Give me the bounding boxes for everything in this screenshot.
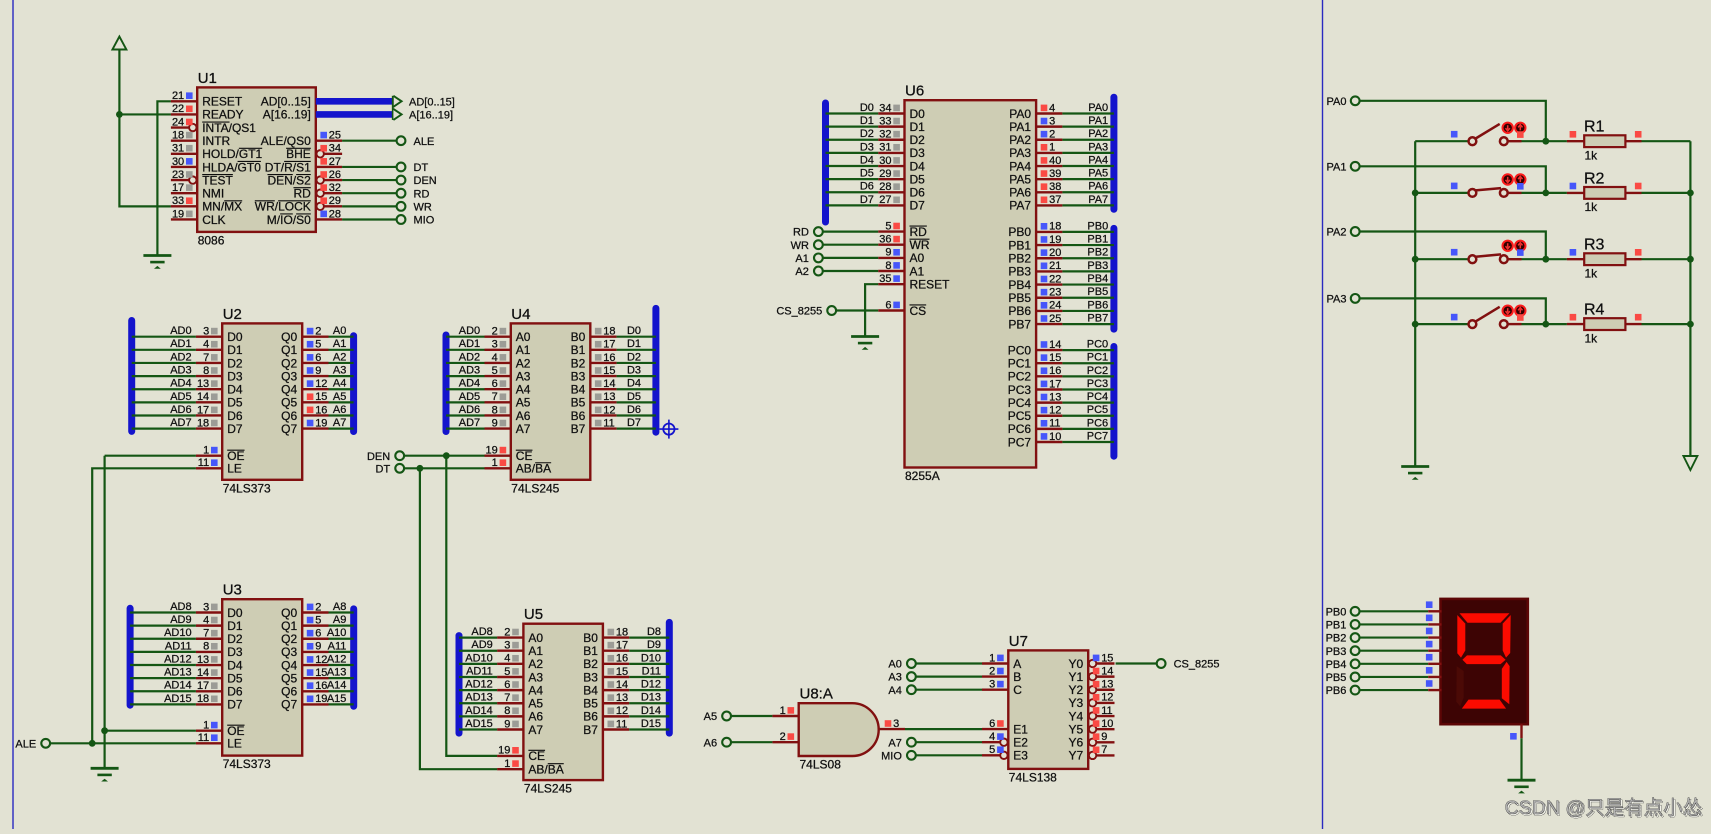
U2 pin 17 D6 <box>170 404 243 423</box>
svg-text:25: 25 <box>1049 313 1061 325</box>
svg-text:PB1: PB1 <box>1087 233 1108 245</box>
svg-text:A0: A0 <box>910 251 925 265</box>
wire AD bus to U3 <box>130 611 196 613</box>
wire AD bus to U3 <box>130 625 196 627</box>
svg-text:D4: D4 <box>627 378 641 390</box>
svg-text:RD: RD <box>910 225 928 239</box>
wire AD bus to U4 <box>446 388 485 390</box>
U4 pin 4 A2 <box>459 351 531 370</box>
svg-text:AD6: AD6 <box>170 404 191 416</box>
svg-text:CS_8255: CS_8255 <box>776 306 822 318</box>
svg-text:A2: A2 <box>333 351 346 363</box>
terminal ALE <box>397 136 435 148</box>
svg-text:30: 30 <box>172 156 184 168</box>
svg-text:5: 5 <box>315 339 321 351</box>
svg-text:D5: D5 <box>227 671 243 685</box>
wire MIO wire <box>916 754 982 756</box>
U6 pin 35 RESET <box>878 273 950 292</box>
svg-text:Q5: Q5 <box>281 396 297 410</box>
U3 body <box>222 599 302 755</box>
svg-text:30: 30 <box>879 155 891 167</box>
svg-text:A0: A0 <box>528 631 543 645</box>
svg-text:10: 10 <box>1101 718 1113 730</box>
terminal MIO (U7.E3) <box>881 750 916 762</box>
wire AD bus to U3 <box>130 664 196 666</box>
wire U6 PC to bus <box>1062 349 1114 351</box>
svg-text:D0: D0 <box>227 330 243 344</box>
wire U8 output to U7.E1 <box>905 728 982 730</box>
svg-text:D7: D7 <box>627 417 641 429</box>
wire U3 to A bus <box>329 651 354 653</box>
svg-text:PA4: PA4 <box>1009 159 1031 173</box>
U2 pin 11 LE <box>196 457 242 476</box>
svg-text:Q1: Q1 <box>281 619 297 633</box>
svg-text:PA7: PA7 <box>1009 199 1031 213</box>
IC U3 74LS373 <box>164 582 346 771</box>
svg-text:A13: A13 <box>327 667 347 679</box>
wire VCC to U1 READY and MN/MX <box>116 49 171 207</box>
wire A0 wire <box>916 662 982 664</box>
wire U3 to A bus <box>329 611 354 613</box>
U7 pin 5 E3 <box>982 744 1028 763</box>
svg-text:PC2: PC2 <box>1008 370 1032 384</box>
U5 pin 5 A3 <box>466 665 543 684</box>
svg-text:PB5: PB5 <box>1326 672 1347 684</box>
wire U3 to A bus <box>329 625 354 627</box>
wire U3 to A bus <box>329 664 354 666</box>
U6 pin 6 CS <box>878 299 926 318</box>
svg-text:11: 11 <box>1049 418 1060 430</box>
terminal WR (U6) <box>791 240 823 252</box>
svg-text:PA1: PA1 <box>1327 161 1347 173</box>
U6 pin 23 PB5 <box>1008 286 1108 305</box>
svg-text:D0: D0 <box>227 606 243 620</box>
U7 body <box>1008 650 1088 769</box>
svg-text:2: 2 <box>492 326 498 338</box>
svg-text:AB/BA: AB/BA <box>528 763 563 777</box>
svg-text:14: 14 <box>1101 665 1113 677</box>
U5 body <box>523 624 603 780</box>
U5 pin 2 A0 <box>471 626 543 645</box>
wire row 1 wire: common to switch <box>1415 140 1468 142</box>
svg-text:19: 19 <box>315 693 327 705</box>
svg-text:A2: A2 <box>516 356 531 370</box>
svg-text:A6: A6 <box>528 710 543 724</box>
wire U6 PB to bus <box>1062 323 1114 325</box>
svg-text:PC6: PC6 <box>1087 417 1108 429</box>
svg-text:22: 22 <box>1049 273 1061 285</box>
U5 pin 9 A7 <box>465 718 543 737</box>
U4 pin 7 A5 <box>459 391 531 410</box>
terminal A3 (U7.B) <box>888 672 915 684</box>
svg-text:74LS373: 74LS373 <box>223 757 271 771</box>
svg-text:15: 15 <box>315 391 327 403</box>
svg-text:Y7: Y7 <box>1069 749 1084 763</box>
wire A5 wire <box>731 715 772 717</box>
svg-text:10: 10 <box>1049 431 1061 443</box>
svg-text:B5: B5 <box>571 396 586 410</box>
wire U4 to D bus <box>617 388 656 390</box>
U5 pin 7 A5 <box>465 692 543 711</box>
svg-text:PB6: PB6 <box>1087 299 1108 311</box>
switch SW4 <box>1451 307 1522 328</box>
wire AD bus to U2 <box>132 336 196 338</box>
svg-text:6: 6 <box>885 299 891 311</box>
wire RD wire <box>823 231 878 233</box>
svg-text:13: 13 <box>197 654 209 666</box>
U5 pin 3 A1 <box>471 639 543 658</box>
svg-text:D0: D0 <box>910 107 926 121</box>
terminal PB1 (display) <box>1326 620 1360 632</box>
U3 pin 5 Q1 <box>281 614 346 633</box>
svg-text:PB2: PB2 <box>1087 247 1108 259</box>
U4 pin 18 B0 <box>571 325 641 344</box>
svg-text:8255A: 8255A <box>905 469 940 483</box>
svg-text:28: 28 <box>879 181 891 193</box>
U1 pin 17 NMI <box>171 182 224 201</box>
resistor R4 <box>1567 302 1642 346</box>
wire U6 PC to bus <box>1062 441 1114 443</box>
svg-text:4: 4 <box>1049 102 1055 114</box>
U3 pin 14 D5 <box>164 667 243 686</box>
svg-text:PC7: PC7 <box>1087 430 1108 442</box>
svg-text:AD8: AD8 <box>471 626 492 638</box>
svg-text:D3: D3 <box>860 141 874 153</box>
svg-text:11: 11 <box>198 732 209 744</box>
terminal PA2 (input) <box>1327 227 1360 239</box>
wire U3 to A bus <box>329 677 354 679</box>
bus PB[0..7] (right of U6) <box>1110 228 1117 329</box>
U1 pin 24 INTA/QS1 <box>171 116 256 135</box>
svg-text:CSDN @只是有点小怂: CSDN @只是有点小怂 <box>1505 797 1702 819</box>
switch SW2 toggle control <box>1503 174 1526 189</box>
svg-text:PA6: PA6 <box>1009 186 1031 200</box>
svg-text:19: 19 <box>486 445 498 457</box>
wire A3 wire <box>916 675 982 677</box>
U6 pin 4 PA0 <box>1009 102 1108 121</box>
U6 pin 12 PC5 <box>1008 404 1108 423</box>
IC U2 74LS373 <box>170 306 346 495</box>
svg-text:LE: LE <box>227 737 242 751</box>
svg-text:11: 11 <box>1101 705 1112 717</box>
resistor R3 <box>1567 237 1642 281</box>
wire U6 PB to bus <box>1062 283 1114 285</box>
svg-text:B7: B7 <box>571 422 586 436</box>
wire AD bus to U2 <box>132 362 196 364</box>
wire WR wire <box>823 244 878 246</box>
svg-text:8: 8 <box>203 365 209 377</box>
U6 pin 11 PC6 <box>1008 417 1108 436</box>
svg-text:21: 21 <box>1049 260 1061 272</box>
switch SW3 <box>1451 249 1522 263</box>
U1 pin 25 ALE/QS0 <box>261 129 342 148</box>
wire ALE to U3.LE <box>50 740 196 747</box>
U6 pin 36 WR <box>878 234 930 253</box>
terminal DT <box>397 162 429 174</box>
svg-text:27: 27 <box>329 156 341 168</box>
wire row 2 wire: switch to resistor <box>1522 190 1567 197</box>
wire row 2 wire: resistor to common <box>1642 192 1691 194</box>
svg-text:35: 35 <box>879 273 891 285</box>
wire U3 to A bus <box>329 703 354 705</box>
wire U6 PC to bus <box>1062 388 1114 390</box>
terminal MIO <box>397 215 435 227</box>
wire U2 to A bus <box>329 336 354 338</box>
svg-text:D1: D1 <box>910 120 926 134</box>
U6 pin 25 PB7 <box>1008 312 1108 331</box>
U5 pin 14 B4 <box>583 679 661 698</box>
wire D bus to U6 <box>826 126 879 128</box>
U5 pin 16 B2 <box>583 652 661 671</box>
wire D bus to U6 <box>826 112 879 114</box>
svg-text:AD9: AD9 <box>471 639 492 651</box>
svg-text:DEN: DEN <box>367 451 390 463</box>
svg-text:B6: B6 <box>571 409 586 423</box>
U1 value label 8086 <box>198 233 225 247</box>
svg-text:PA3: PA3 <box>1327 294 1347 306</box>
ground (display common) <box>1508 780 1536 793</box>
svg-text:A3: A3 <box>333 364 346 376</box>
U7 pin 12 Y3 <box>1069 692 1115 711</box>
wire AD bus to U4 <box>446 414 485 416</box>
terminal PA3 (input) <box>1327 294 1360 306</box>
svg-text:A9: A9 <box>333 614 346 626</box>
bus AD[8..15] (left of U3) <box>127 608 134 705</box>
svg-text:1: 1 <box>504 758 510 770</box>
svg-text:3: 3 <box>203 601 209 613</box>
wire AD bus to U5 <box>459 650 497 652</box>
svg-text:A1: A1 <box>910 264 925 278</box>
svg-text:DEN: DEN <box>414 175 437 187</box>
svg-text:RD: RD <box>793 227 809 239</box>
U6 pin 5 RD <box>878 220 927 239</box>
wire AD bus to U5 <box>459 715 497 717</box>
U6 pin 24 PB6 <box>1008 299 1108 318</box>
svg-text:C: C <box>1013 683 1022 697</box>
svg-text:2: 2 <box>989 665 995 677</box>
terminal RD (U6) <box>793 227 823 239</box>
terminal PA0 (input) <box>1327 96 1360 108</box>
svg-text:A6: A6 <box>704 737 717 749</box>
svg-text:Y3: Y3 <box>1069 696 1084 710</box>
switch SW3 toggle control <box>1503 241 1526 256</box>
svg-text:AD6: AD6 <box>459 404 480 416</box>
svg-text:D4: D4 <box>227 658 243 672</box>
wire AD bus to U2 <box>132 375 196 377</box>
svg-text:PC4: PC4 <box>1087 391 1108 403</box>
svg-text:37: 37 <box>1049 194 1061 206</box>
wire U5 to D bus <box>629 702 669 704</box>
U3 pin 8 D3 <box>165 640 243 659</box>
svg-text:1: 1 <box>203 445 209 457</box>
svg-text:3: 3 <box>893 718 899 730</box>
wire AD bus to U4 <box>446 349 485 351</box>
terminal RD <box>397 188 430 200</box>
svg-text:29: 29 <box>879 168 891 180</box>
IC U6 8255A <box>860 83 1108 483</box>
svg-text:D2: D2 <box>227 356 243 370</box>
U6 pin 40 PA4 <box>1009 154 1108 173</box>
svg-text:Y2: Y2 <box>1069 683 1084 697</box>
svg-text:AD5: AD5 <box>459 391 480 403</box>
svg-text:Y4: Y4 <box>1069 709 1084 723</box>
svg-text:AD15: AD15 <box>465 718 493 730</box>
svg-text:2: 2 <box>504 626 510 638</box>
svg-text:A1: A1 <box>795 253 808 265</box>
svg-text:Y5: Y5 <box>1069 722 1084 736</box>
svg-text:A5: A5 <box>333 391 346 403</box>
terminal PB0 (display) <box>1326 606 1360 618</box>
svg-text:14: 14 <box>197 391 209 403</box>
svg-text:1k: 1k <box>1585 148 1599 162</box>
U4 reference label <box>511 306 530 323</box>
svg-text:33: 33 <box>879 115 891 127</box>
switch SW2 <box>1451 183 1522 197</box>
wire U4 to D bus <box>617 375 656 377</box>
svg-text:39: 39 <box>1049 168 1061 180</box>
wire A1 wire <box>823 257 878 259</box>
U1 pin 34 BHE <box>286 143 342 162</box>
sheet border right edge <box>1322 0 1324 829</box>
svg-text:A4: A4 <box>516 383 531 397</box>
wire row 2 wire: common to switch <box>1415 192 1468 194</box>
svg-text:74LS245: 74LS245 <box>511 481 559 495</box>
wire AD bus to U4 <box>446 336 485 338</box>
wire U2 to A bus <box>329 349 354 351</box>
wire OE net vertical <box>101 456 108 769</box>
U3 pin 9 Q3 <box>281 640 346 659</box>
svg-text:B3: B3 <box>571 369 586 383</box>
svg-text:PC0: PC0 <box>1008 343 1032 357</box>
svg-text:PC2: PC2 <box>1087 365 1108 377</box>
svg-text:16: 16 <box>603 352 615 364</box>
svg-text:17: 17 <box>603 339 615 351</box>
svg-text:D9: D9 <box>647 639 661 651</box>
U6 pin 8 A1 <box>878 260 924 279</box>
svg-text:28: 28 <box>329 208 341 220</box>
svg-text:A2: A2 <box>528 657 543 671</box>
U5 pin 11 B7 <box>583 718 661 737</box>
U6 reference label <box>905 83 924 100</box>
svg-text:Q6: Q6 <box>281 409 297 423</box>
svg-text:R1: R1 <box>1584 119 1605 136</box>
wire D bus to U6 <box>826 191 879 193</box>
U6 pin 20 PB2 <box>1008 247 1108 266</box>
wire U6 PC to bus <box>1062 362 1114 364</box>
wire VCC branch to READY <box>119 113 170 115</box>
svg-text:A1: A1 <box>333 338 346 350</box>
svg-text:D3: D3 <box>227 645 243 659</box>
svg-text:R2: R2 <box>1584 170 1605 187</box>
svg-text:11: 11 <box>198 457 209 469</box>
wire row 3 wire: resistor to common <box>1642 258 1691 260</box>
U2 pin 1 OE <box>196 445 245 464</box>
bus PC[0..7] (right of U6) <box>1110 347 1117 457</box>
wire U2 to A bus <box>329 362 354 364</box>
U7 value label 74LS138 <box>1009 770 1057 784</box>
svg-text:23: 23 <box>1049 287 1061 299</box>
svg-text:Q5: Q5 <box>281 671 297 685</box>
wire U6 RESET to ground <box>865 284 878 336</box>
svg-text:A0: A0 <box>888 659 901 671</box>
U2 pin 19 Q7 <box>281 417 346 436</box>
svg-text:12: 12 <box>1101 692 1113 704</box>
svg-text:DT: DT <box>414 162 429 174</box>
bus A[8..15] (right of U3) <box>350 609 357 706</box>
wire U6 PB to bus <box>1062 310 1114 312</box>
svg-text:18: 18 <box>197 693 209 705</box>
U5 pin 15 B3 <box>583 665 661 684</box>
IC U1 8086 <box>171 70 342 248</box>
wire AD bus to U5 <box>459 728 497 730</box>
svg-text:B1: B1 <box>583 644 598 658</box>
svg-text:A4: A4 <box>888 685 901 697</box>
svg-text:RESET: RESET <box>910 278 951 292</box>
wire AD bus to U4 <box>446 362 485 364</box>
wire U2 to A bus <box>329 388 354 390</box>
U6 pin 39 PA5 <box>1009 168 1108 187</box>
U3 pin 6 Q2 <box>281 627 346 646</box>
U1 pin 29 WR/LOCK <box>255 195 342 214</box>
svg-text:13: 13 <box>197 378 209 390</box>
svg-text:3: 3 <box>989 679 995 691</box>
svg-text:D6: D6 <box>910 186 926 200</box>
svg-text:U2: U2 <box>223 306 242 323</box>
switch SW4 toggle control <box>1503 306 1526 321</box>
svg-text:PC0: PC0 <box>1087 339 1108 351</box>
svg-text:7: 7 <box>492 391 498 403</box>
wire U1 RESET to ground <box>157 101 171 255</box>
svg-text:INTA/QS1: INTA/QS1 <box>202 121 256 135</box>
svg-text:Q3: Q3 <box>281 369 297 383</box>
U7 reference label <box>1009 633 1028 650</box>
svg-text:D14: D14 <box>641 705 661 717</box>
wire U4 to D bus <box>617 401 656 403</box>
svg-text:PB3: PB3 <box>1008 265 1031 279</box>
U6 pin 22 PB4 <box>1008 273 1108 292</box>
svg-text:PB1: PB1 <box>1326 620 1347 632</box>
svg-text:17: 17 <box>1049 378 1061 390</box>
wire row 4 wire: common to switch <box>1415 323 1468 325</box>
svg-text:D3: D3 <box>627 364 641 376</box>
svg-text:19: 19 <box>172 208 184 220</box>
ground (latch OE) <box>91 768 119 781</box>
wire U3 to A bus <box>329 638 354 640</box>
U6 pin 38 PA6 <box>1009 181 1108 200</box>
watermark CSDN <box>1505 797 1704 821</box>
svg-text:PB4: PB4 <box>1326 659 1347 671</box>
U7 pin 11 Y4 <box>1069 705 1115 724</box>
svg-text:PB3: PB3 <box>1087 260 1108 272</box>
svg-text:PC4: PC4 <box>1008 396 1032 410</box>
svg-text:3: 3 <box>203 326 209 338</box>
svg-text:27: 27 <box>879 194 891 206</box>
svg-text:2: 2 <box>780 731 786 743</box>
svg-text:12: 12 <box>616 705 628 717</box>
svg-text:AD14: AD14 <box>465 705 493 717</box>
U8:A value label 74LS08 <box>800 758 842 772</box>
U5 pin 18 B0 <box>583 626 661 645</box>
svg-text:AD10: AD10 <box>164 627 192 639</box>
svg-text:A12: A12 <box>327 653 347 665</box>
wire OE net (U2.OE / U3.OE to ground) <box>105 455 196 457</box>
bus AD[0..7] (left of U4) <box>443 335 450 432</box>
svg-text:AD4: AD4 <box>170 378 191 390</box>
svg-text:D5: D5 <box>910 172 926 186</box>
svg-text:BHE: BHE <box>286 147 311 161</box>
IC U5 74LS245 <box>465 606 661 795</box>
U6 pin 14 PC0 <box>1008 339 1108 358</box>
